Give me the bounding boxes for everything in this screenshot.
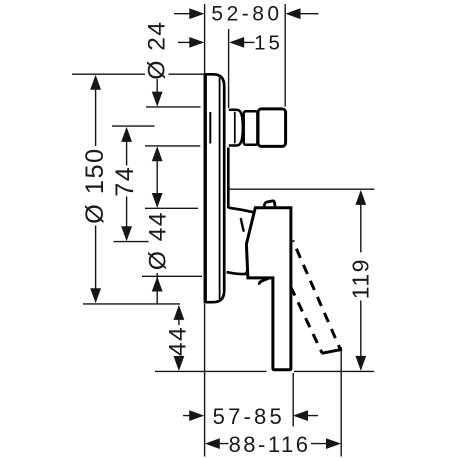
dimension line 119 vertical bbox=[360, 192, 362, 369]
dashed lever end cap bbox=[322, 350, 340, 354]
dimension 52-80 tails bbox=[174, 13, 319, 15]
extension line lever bottom y=371 bbox=[155, 370, 374, 372]
cartridge sleeve bottom edge bbox=[227, 270, 248, 274]
cartridge sleeve top edge bbox=[229, 208, 254, 213]
svg-text:119: 119 bbox=[347, 258, 373, 299]
extension tick spout top bbox=[146, 106, 201, 108]
svg-text:88-116: 88-116 bbox=[229, 432, 311, 457]
dimension 57-85 tails bbox=[183, 415, 318, 417]
dimension line 74 vertical bbox=[126, 129, 128, 239]
svg-text:Ø 44: Ø 44 bbox=[145, 211, 172, 270]
extension line x=285 spout end bbox=[284, 4, 286, 107]
extension tick cartridge top bbox=[145, 207, 198, 209]
svg-text:57-85: 57-85 bbox=[213, 404, 285, 429]
arrow 119 top bbox=[355, 190, 366, 205]
svg-text:15: 15 bbox=[254, 32, 283, 55]
arrow 52-80 right bbox=[286, 8, 301, 19]
svg-text:52-80: 52-80 bbox=[211, 3, 282, 26]
dimension line D150 vertical bbox=[95, 77, 97, 300]
extension line x=228.6 above spout bbox=[228, 29, 230, 108]
plate face contour line bbox=[219, 78, 221, 300]
svg-text:44: 44 bbox=[165, 326, 192, 356]
extension line valve axis y=189 bbox=[229, 188, 375, 190]
arrow D44 bottom bbox=[152, 277, 163, 292]
arrow 57-85 left bbox=[189, 410, 204, 421]
spout neck flange bbox=[229, 110, 243, 146]
extension line wall-face vertical top bbox=[204, 4, 206, 73]
handle under-body hook bbox=[259, 278, 270, 285]
svg-text:74: 74 bbox=[111, 166, 139, 197]
spout neck inner edge bbox=[234, 112, 236, 144]
extension tick spout bottom bbox=[145, 145, 200, 147]
arrow 88-116 right bbox=[326, 438, 341, 449]
extension line plate top y=74 bbox=[72, 73, 205, 75]
arrow D150 bottom bbox=[90, 288, 101, 303]
spout ring bbox=[244, 111, 258, 144]
plate spout collar contour bbox=[209, 112, 211, 144]
cartridge sleeve highlight dash bbox=[241, 219, 244, 231]
arrow 119 bottom bbox=[355, 356, 366, 371]
extension tick 74 bottom bbox=[114, 241, 149, 243]
arrow D44 top bbox=[152, 193, 163, 208]
arrow 88-116 left bbox=[205, 438, 220, 449]
plate front face bbox=[204, 74, 207, 302]
extension tick spout axis bbox=[112, 125, 155, 127]
body wall line between spout and cartridge bbox=[227, 148, 230, 209]
extension line x=341 dashed-lever tip bbox=[340, 347, 342, 457]
extension line x=293 lever edge bottom bbox=[292, 373, 294, 427]
arrow 44 top bbox=[174, 305, 185, 320]
dimension line D24-D44 vertical bbox=[156, 79, 158, 304]
svg-text:Ø 150: Ø 150 bbox=[81, 147, 109, 223]
handle top tab bbox=[264, 201, 275, 207]
arrow 52-80 left bbox=[189, 8, 204, 19]
dashed lever rotated right edge bbox=[293, 241, 341, 352]
arrow 15 right bbox=[229, 37, 244, 48]
escutcheon plate outline bbox=[205, 74, 224, 302]
dimension 88-116 tails bbox=[217, 443, 329, 445]
dimension line 44 vertical bbox=[178, 307, 180, 369]
arrow 74 bottom bbox=[121, 226, 132, 241]
dimension 15 tails bbox=[178, 41, 255, 43]
svg-text:Ø 24: Ø 24 bbox=[144, 20, 171, 79]
dashed lever rotated left edge bbox=[291, 287, 322, 353]
arrow D24 bottom bbox=[152, 146, 163, 161]
arrow 15 left bbox=[189, 37, 204, 48]
arrow 74 top bbox=[121, 127, 132, 142]
spout block bbox=[258, 109, 286, 146]
arrow D24 top bbox=[152, 92, 163, 107]
extension line plate bottom y=304 bbox=[83, 303, 180, 305]
handle body and lever bbox=[246, 208, 291, 370]
arrow 57-85 right bbox=[293, 410, 308, 421]
arrow D150 top bbox=[90, 75, 101, 90]
extension line wall-face vertical bottom bbox=[204, 304, 206, 457]
extension tick cartridge bottom bbox=[142, 275, 202, 277]
arrow 44 bottom bbox=[174, 356, 185, 371]
